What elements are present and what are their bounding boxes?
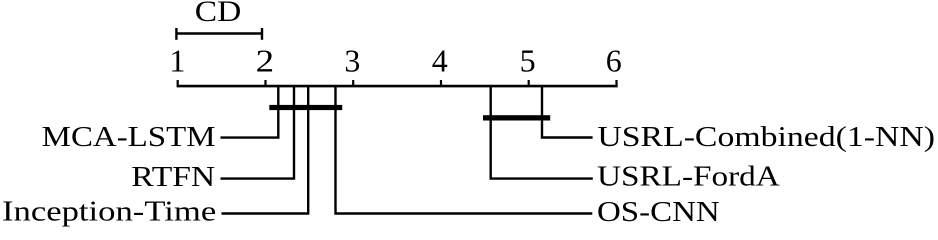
svg-text:6: 6 (606, 43, 622, 79)
clique bar right (483, 115, 550, 120)
svg-text:RTFN: RTFN (131, 161, 215, 193)
tick 5 (528, 80, 530, 86)
USRL-Combined rank line (542, 85, 593, 138)
clique bar left (269, 105, 342, 110)
svg-text:4: 4 (432, 43, 448, 79)
USRL-FordA rank line (491, 85, 593, 179)
tick 3 (352, 80, 354, 86)
svg-text:Inception-Time: Inception-Time (2, 195, 216, 227)
svg-text:USRL-Combined(1-NN): USRL-Combined(1-NN) (597, 121, 935, 153)
CD interval bar (176, 32, 262, 34)
tick 2 (264, 80, 266, 86)
CD left cap (175, 28, 177, 40)
OS-CNN rank line (336, 85, 593, 214)
svg-text:MCA-LSTM: MCA-LSTM (42, 121, 216, 153)
tick 4 (440, 80, 442, 86)
axis line (177, 85, 618, 88)
CD right cap (261, 28, 263, 40)
svg-text:CD: CD (195, 0, 242, 28)
tick 6 (615, 80, 617, 86)
svg-text:OS-CNN: OS-CNN (597, 196, 720, 228)
svg-text:2: 2 (256, 43, 275, 79)
tick 1 (177, 80, 179, 86)
svg-text:3: 3 (344, 43, 360, 79)
svg-text:USRL-FordA: USRL-FordA (597, 161, 780, 193)
MCA-LSTM rank line (221, 85, 279, 138)
Inception-Time rank line (222, 85, 309, 214)
svg-text:1: 1 (169, 43, 185, 79)
svg-text:5: 5 (520, 43, 536, 79)
RTFN rank line (221, 85, 295, 179)
